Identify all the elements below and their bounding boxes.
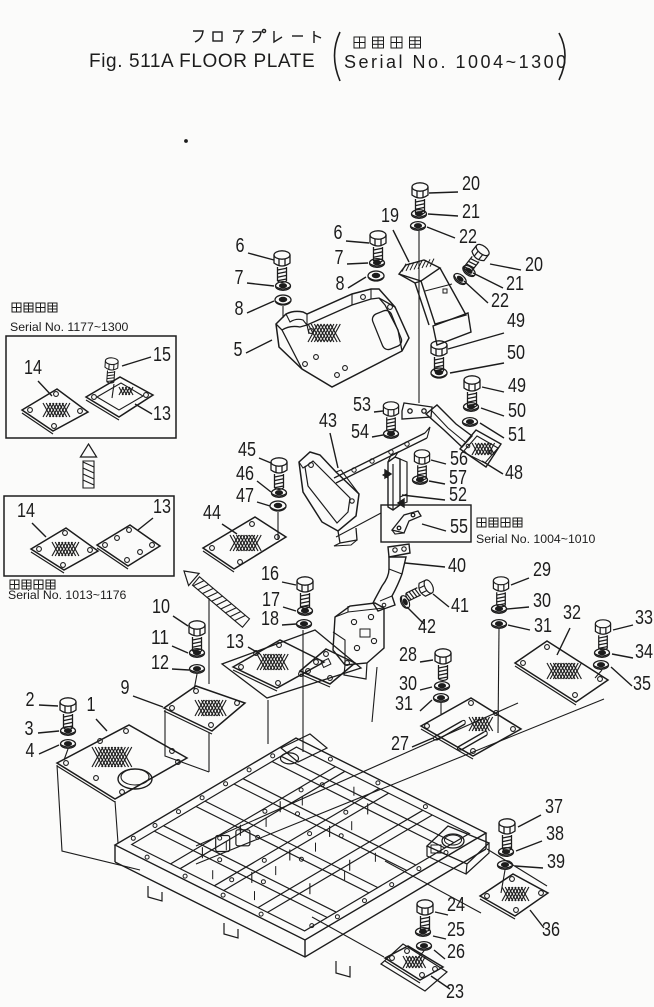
leader line 31 b (420, 700, 432, 711)
leader line 46 (257, 481, 271, 492)
label 21 side (506, 272, 524, 295)
washer 38 (499, 848, 514, 857)
speck dot (185, 140, 188, 143)
svg-text:35: 35 (633, 672, 651, 695)
washer 39 (498, 861, 513, 870)
leader line 16 (282, 582, 296, 585)
svg-text:49: 49 (507, 309, 525, 332)
leader line 52 (402, 495, 445, 500)
projection 31a down (498, 629, 499, 733)
washer 7 right (370, 259, 385, 268)
label 40 (448, 554, 466, 577)
leader line 41 (433, 594, 449, 607)
bolt 16 (297, 577, 313, 609)
label 2 (26, 688, 35, 711)
leader line 50 a (450, 363, 504, 373)
label 23 (446, 980, 464, 1003)
svg-text:46: 46 (236, 462, 254, 485)
plate 13 mid-right (300, 649, 355, 687)
label 45 (238, 438, 256, 461)
bolt 15 tip line (112, 384, 114, 398)
bolt 28 (435, 649, 451, 681)
svg-text:Serial No. 1004~1300: Serial No. 1004~1300 (344, 52, 569, 72)
leader line 31 a (508, 625, 530, 630)
washer 3 (61, 727, 76, 736)
mount outline 13 on frame (281, 734, 327, 762)
projection 36 to frame a (385, 861, 481, 913)
note kanji 1004-1010 (477, 518, 522, 527)
projection 23 to frame (312, 917, 384, 957)
leader line 53 (374, 411, 383, 412)
label 19 (381, 204, 399, 227)
leader line 6 left (248, 253, 274, 260)
plate 1 (57, 725, 187, 802)
leader line 12 (172, 669, 189, 670)
seat support bracket (333, 603, 384, 679)
svg-text:32: 32 (563, 601, 581, 624)
svg-text:5: 5 (234, 338, 243, 361)
panel outline around plate 23 (381, 944, 447, 991)
label 9 (121, 676, 130, 699)
washer 4 (61, 740, 76, 749)
projection line 32 long b (196, 703, 518, 846)
svg-text:37: 37 (545, 795, 563, 818)
panel outline around plates 13 (222, 630, 361, 698)
title kanji tekiyou gouki (354, 37, 421, 48)
leader line 9 (133, 696, 163, 707)
label 37 (545, 795, 563, 818)
svg-text:8: 8 (235, 297, 244, 320)
label 20 top (462, 172, 480, 195)
frame foot tab b (148, 886, 162, 901)
bolt 29 (493, 577, 508, 607)
svg-text:55: 55 (450, 515, 468, 538)
leader line 38 (516, 841, 542, 851)
title parenthesis right (559, 33, 565, 80)
leader line 33 (613, 625, 633, 630)
leader line 29 (511, 578, 529, 585)
leader line 13 mid (248, 647, 260, 654)
washer 7 left (276, 282, 291, 291)
washer 22 side (452, 271, 468, 286)
leader line 32 (557, 628, 570, 655)
label 21 top (462, 200, 480, 223)
leader line 14 box1 (38, 381, 52, 396)
svg-text:14: 14 (17, 499, 35, 522)
label 35 (633, 672, 651, 695)
cover 5 vent hatch (308, 324, 340, 342)
leader line 50 b (481, 408, 504, 416)
svg-text:Serial No. 1177~1300: Serial No. 1177~1300 (10, 320, 129, 334)
control rod (334, 427, 430, 483)
leader line 56 (431, 460, 446, 464)
bolt 24 (417, 900, 433, 932)
leader line 54 (372, 435, 383, 437)
leader line 36 (530, 910, 544, 928)
nut 8 left (275, 295, 291, 305)
bracket 40 (373, 544, 410, 611)
leader line 23 (431, 976, 450, 989)
projection line group13 left (267, 700, 269, 744)
plate 23 (385, 946, 443, 983)
bolt 20 side (461, 242, 492, 275)
bolt 6 left (274, 251, 290, 283)
label 8 left (235, 297, 244, 320)
svg-text:47: 47 (236, 484, 254, 507)
label 34 (635, 640, 653, 663)
leader line 22 side (464, 281, 488, 303)
leader line 22 top (427, 227, 455, 238)
plate 13 box2 (97, 525, 160, 569)
label 5 (234, 338, 243, 361)
leader line 30 b (420, 687, 432, 690)
label 11 (151, 626, 169, 649)
svg-text:Serial No. 1004~1010: Serial No. 1004~1010 (476, 532, 595, 546)
leader line 45 (259, 458, 271, 463)
washer 25 (416, 928, 431, 937)
bolt 49 b (464, 376, 480, 408)
plate 36 (480, 874, 548, 919)
leader line 5 (246, 340, 272, 353)
projection line 32 long a (196, 699, 604, 864)
label 12 (151, 651, 169, 674)
svg-text:18: 18 (261, 607, 279, 630)
leader line 20 top (429, 192, 458, 193)
leader line 55 (422, 524, 446, 531)
leader line 18 (282, 624, 296, 625)
label 55 (450, 515, 468, 538)
projection line 44 to plate 9 (208, 598, 210, 684)
washer 17 (298, 607, 313, 616)
frame foot tab c (224, 923, 238, 938)
frame raised box (427, 826, 489, 874)
label 57 (449, 466, 467, 489)
label 31 b (395, 692, 413, 715)
svg-text:26: 26 (447, 940, 465, 963)
label 50 a (507, 341, 525, 364)
washer 12 (190, 665, 205, 674)
label 31 a (534, 614, 552, 637)
svg-text:25: 25 (447, 918, 465, 941)
bolt 15 box1 (104, 357, 119, 383)
leader line 19 (393, 230, 409, 262)
washer 31 b (434, 694, 449, 703)
leader 55 to 43 (336, 513, 381, 537)
svg-text:10: 10 (152, 595, 170, 618)
label 36 (542, 918, 560, 941)
svg-text:45: 45 (238, 438, 256, 461)
hatched arrow diagonal (184, 571, 250, 627)
svg-text:52: 52 (449, 483, 467, 506)
leader line 4 (39, 745, 59, 754)
svg-text:11: 11 (151, 626, 169, 649)
pedal arm 48 (426, 405, 501, 467)
plate 13 box1 (86, 377, 153, 420)
svg-text:7: 7 (235, 266, 244, 289)
svg-text:3: 3 (25, 717, 34, 740)
note serial 1177-1300 (10, 320, 129, 334)
label 15 box1 (153, 343, 171, 366)
svg-text:42: 42 (418, 615, 436, 638)
leader line 1 (96, 719, 107, 731)
leader line 25 (433, 936, 446, 939)
label 42 (418, 615, 436, 638)
plate 14 box1 (22, 389, 88, 434)
svg-text:38: 38 (546, 822, 564, 845)
leader line 7 right (347, 263, 368, 264)
leader line 21 side (473, 273, 503, 288)
washer 30 b (435, 682, 450, 691)
leader line 14 box2 (32, 523, 46, 537)
leader line 39 (515, 866, 543, 868)
label 30 b (399, 672, 417, 695)
label 13 mid (226, 630, 244, 653)
svg-text:6: 6 (236, 234, 245, 257)
projection 31b to plate 27 (440, 703, 442, 714)
label 13 box2 (153, 495, 171, 518)
leader line 13 box2 (138, 518, 153, 530)
label 43 (319, 409, 337, 432)
label 13 box1 (153, 402, 171, 425)
washer 21 side (461, 263, 477, 278)
svg-text:50: 50 (508, 399, 526, 422)
label 22 side (491, 289, 509, 312)
washer 11 (190, 649, 205, 658)
washer 51 (463, 418, 478, 427)
projection line 18 to frame (302, 630, 304, 752)
svg-text:39: 39 (547, 850, 565, 873)
projection 39 down (501, 870, 505, 893)
label 8 right (336, 272, 345, 295)
note serial 1004-1010 (476, 532, 595, 546)
svg-text:31: 31 (534, 614, 552, 637)
plate 14 box2 (31, 528, 98, 573)
svg-text:40: 40 (448, 554, 466, 577)
label 39 (547, 850, 565, 873)
label 10 (152, 595, 170, 618)
label 44 (203, 501, 221, 524)
leader line 49 a (448, 333, 504, 349)
leader line 6 right (346, 241, 369, 243)
label 18 (261, 607, 279, 630)
label 24 (447, 893, 465, 916)
svg-text:27: 27 (391, 732, 409, 755)
label 25 (447, 918, 465, 941)
projection line bolt 6 left (282, 306, 284, 318)
leader line 8 left (247, 301, 274, 313)
nut 8 right (368, 271, 384, 281)
note serial 1013-1176 (8, 588, 127, 602)
label 20 side (525, 253, 543, 276)
bolt 37 (499, 819, 515, 851)
leader line 34 (612, 654, 633, 658)
label 46 (236, 462, 254, 485)
svg-text:1: 1 (87, 693, 96, 716)
note kanji box1 (12, 303, 57, 312)
box serial 1004-1010 (381, 505, 471, 542)
hatched arrow up (80, 444, 96, 488)
svg-text:30: 30 (533, 589, 551, 612)
box serial 1177-1300 (6, 336, 176, 438)
leader line 3 (38, 731, 59, 733)
label 26 (447, 940, 465, 963)
projection 35 down (595, 670, 602, 678)
washer 31 a (492, 620, 507, 629)
leader line 40 (405, 563, 445, 567)
projection line bracket to frame (372, 667, 377, 722)
leader line 49 b (482, 387, 504, 392)
title serial no 1004-1300 (344, 52, 569, 72)
projection 4 down (64, 749, 68, 760)
label 53 (353, 393, 371, 416)
svg-text:22: 22 (459, 225, 477, 248)
svg-text:12: 12 (151, 651, 169, 674)
svg-text:13: 13 (153, 495, 171, 518)
leader line 20 side (490, 264, 521, 270)
leader line 2 (39, 705, 58, 706)
leader line 43 (330, 433, 338, 468)
bolt 2 (60, 698, 76, 730)
label 28 (399, 643, 417, 666)
leader line 42 (407, 607, 424, 624)
bolt 49 a (431, 341, 447, 373)
leader line 21 top (428, 214, 458, 216)
label 4 (26, 739, 35, 762)
bracket for bolt 53 (402, 403, 432, 419)
svg-text:19: 19 (381, 204, 399, 227)
svg-text:24: 24 (447, 893, 465, 916)
nut 47 (270, 501, 286, 511)
leader line 15 box1 (122, 357, 151, 366)
bolt 10 (189, 621, 205, 653)
svg-text:16: 16 (261, 562, 279, 585)
leader line 35 (611, 667, 632, 686)
svg-text:14: 14 (24, 356, 42, 379)
svg-text:43: 43 (319, 409, 337, 432)
leader line 17 (283, 607, 296, 611)
label 14 box1 (24, 356, 42, 379)
projection panel 9 (165, 710, 209, 772)
svg-text:2: 2 (26, 688, 35, 711)
svg-text:Serial No. 1013~1176: Serial No. 1013~1176 (8, 588, 127, 602)
washer 46 (272, 489, 287, 498)
label 52 (449, 483, 467, 506)
svg-text:15: 15 (153, 343, 171, 366)
leader line 11 (172, 646, 188, 653)
svg-text:36: 36 (542, 918, 560, 941)
box serial 1013-1176 (4, 496, 174, 576)
leader line 51 (480, 423, 504, 438)
svg-text:4: 4 (26, 739, 35, 762)
nut 50 a (431, 368, 447, 378)
leader line 26 (434, 950, 445, 959)
pedal 48 hatch (472, 443, 495, 455)
svg-text:54: 54 (351, 420, 369, 443)
leader line 47 (257, 502, 270, 506)
plate 9 (164, 686, 245, 734)
projection line bolt 20 (418, 231, 420, 403)
label 51 (508, 423, 526, 446)
label 49 b (508, 374, 526, 397)
label 48 (505, 461, 523, 484)
svg-text:49: 49 (508, 374, 526, 397)
label 29 (533, 558, 551, 581)
label 6 left (236, 234, 245, 257)
leader line 27 (412, 738, 433, 747)
cover 5 body (276, 289, 409, 387)
label 6 right (334, 221, 343, 244)
projection 26 down (416, 951, 424, 960)
plate 32 (515, 641, 608, 705)
label 47 (236, 484, 254, 507)
washer 42 (398, 594, 411, 610)
svg-text:29: 29 (533, 558, 551, 581)
svg-text:6: 6 (334, 221, 343, 244)
washer 18 (297, 620, 312, 629)
label 41 (451, 594, 469, 617)
note kanji box2 (10, 580, 55, 589)
leader line 30 a (507, 607, 529, 609)
projection 12 down (194, 674, 197, 690)
svg-text:20: 20 (525, 253, 543, 276)
plate 44 (203, 517, 286, 572)
svg-text:9: 9 (121, 676, 130, 699)
svg-text:23: 23 (446, 980, 464, 1002)
plate 13 mid-left (233, 640, 324, 691)
leader line 28 (420, 660, 433, 662)
svg-text:13: 13 (226, 630, 244, 653)
svg-text:48: 48 (505, 461, 523, 484)
label 54 (351, 420, 369, 443)
channel 52 (383, 452, 407, 510)
label 30 a (533, 589, 551, 612)
washer 50 b (464, 403, 479, 412)
title parenthesis left (335, 32, 341, 81)
svg-text:53: 53 (353, 393, 371, 416)
label 33 (635, 606, 653, 629)
leader line 48 (482, 461, 503, 474)
svg-text:44: 44 (203, 501, 221, 524)
svg-text:34: 34 (635, 640, 653, 663)
title katakana furoa pureeto (193, 29, 321, 43)
panel 19 (399, 260, 471, 345)
svg-text:28: 28 (399, 643, 417, 666)
svg-text:31: 31 (395, 692, 413, 715)
projection panel 1 (57, 765, 140, 870)
label 3 (25, 717, 34, 740)
label 50 b (508, 399, 526, 422)
bolt 53 (383, 402, 398, 432)
leader line 10 (173, 616, 188, 626)
svg-text:8: 8 (336, 272, 345, 295)
label 38 (546, 822, 564, 845)
svg-text:41: 41 (451, 594, 469, 617)
bracket 55 (392, 511, 421, 534)
projection line 47 to plate 44 (277, 512, 279, 540)
svg-text:13: 13 (153, 402, 171, 425)
label 56 (450, 447, 468, 470)
leader line 44 (222, 524, 237, 534)
leader line 57 (429, 481, 445, 484)
title Fig. 511A FLOOR PLATE (89, 51, 315, 72)
svg-text:Fig. 511A FLOOR PLATE: Fig. 511A FLOOR PLATE (89, 51, 315, 72)
label 22 top (459, 225, 477, 248)
label 7 left (235, 266, 244, 289)
washer 22 top (411, 222, 426, 231)
label 16 (261, 562, 279, 585)
svg-text:50: 50 (507, 341, 525, 364)
label 1 (87, 693, 96, 716)
